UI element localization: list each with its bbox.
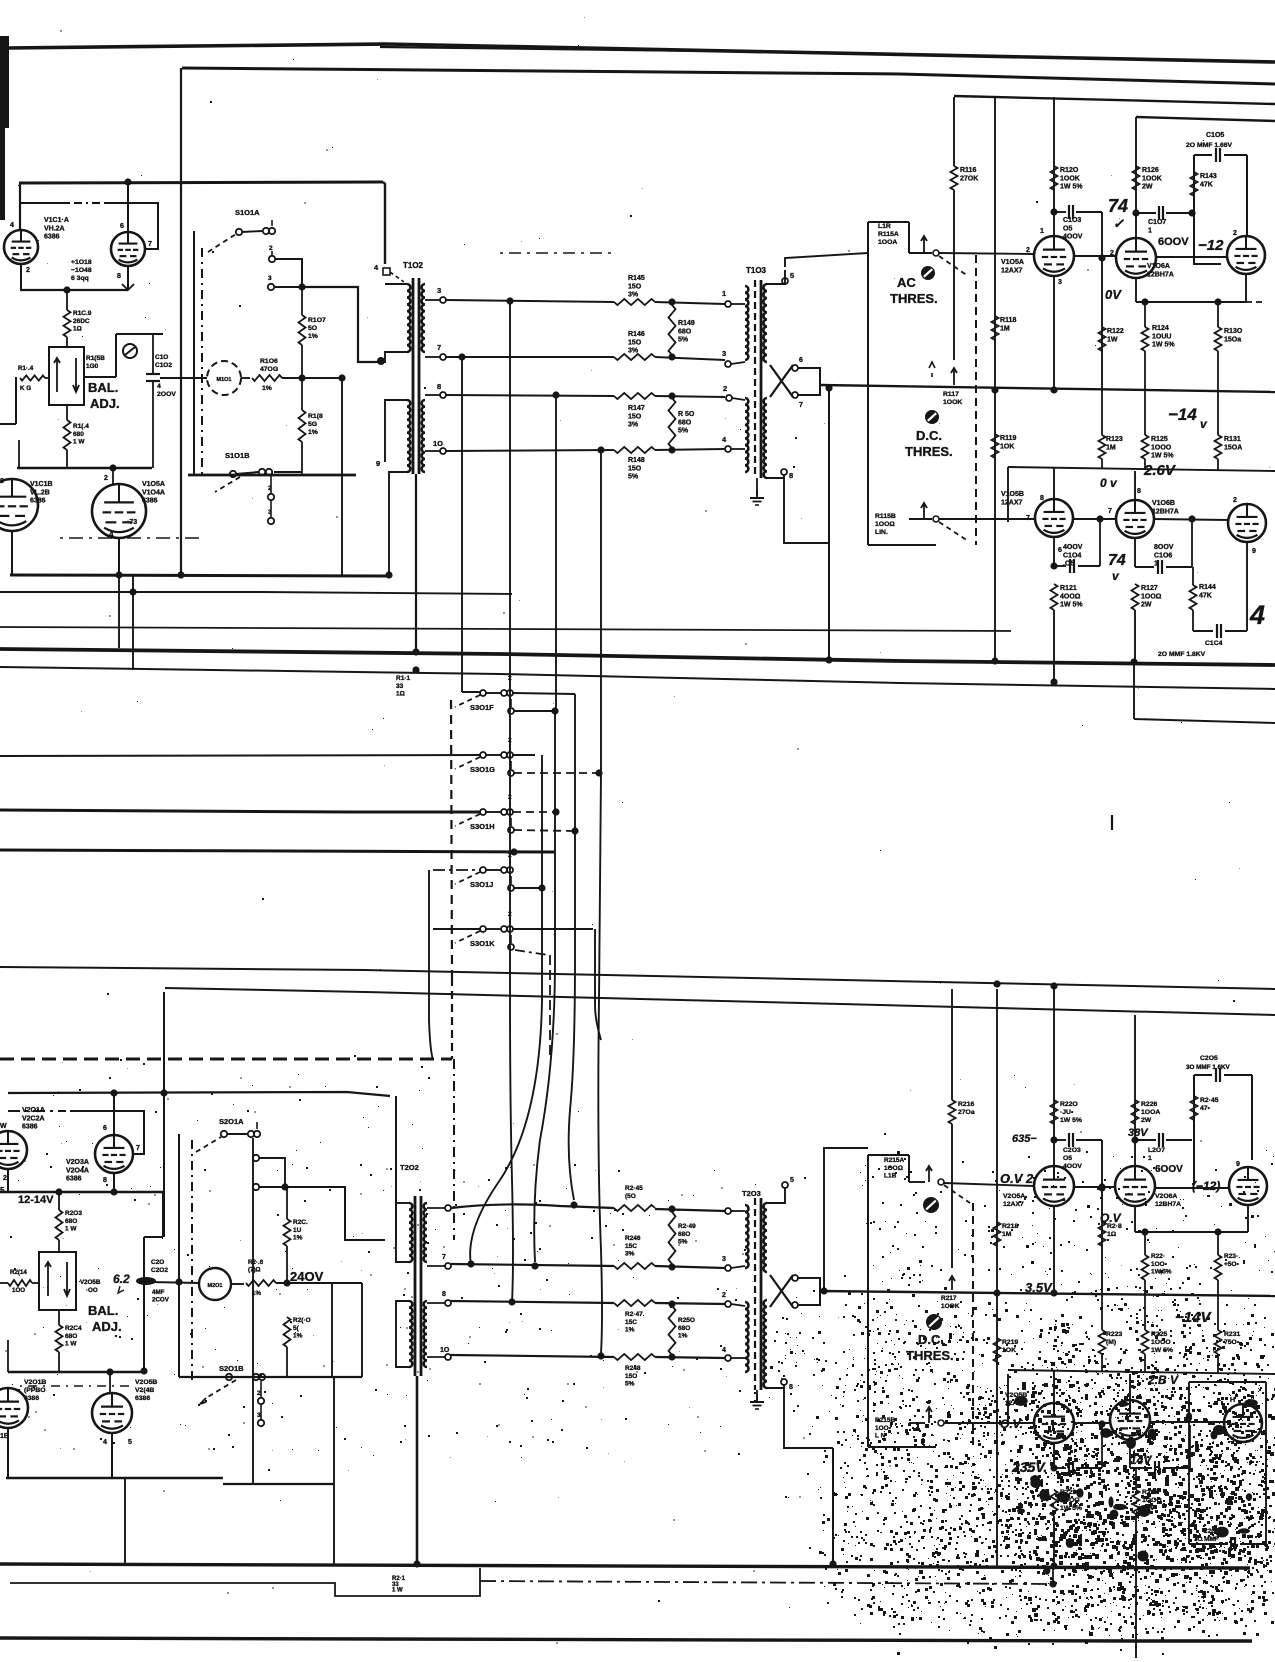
- drop wire w3: [555, 395, 557, 711]
- svg-text:1 W: 1 W: [392, 1588, 403, 1594]
- svg-text:7: 7: [437, 343, 441, 352]
- svg-text:2: 2: [723, 384, 727, 393]
- T202 primary lower: [409, 1301, 412, 1367]
- svg-text:74: 74: [1108, 196, 1128, 216]
- svg-text:1: 1: [1154, 561, 1158, 568]
- svg-text:R22O: R22O: [1060, 1101, 1078, 1108]
- svg-text:1OOO: 1OOO: [1151, 444, 1172, 451]
- T202 left pins: [396, 1202, 409, 1204]
- svg-text:3O MMF 1 6KV: 3O MMF 1 6KV: [1186, 1064, 1231, 1071]
- svg-text:74: 74: [1108, 552, 1126, 569]
- svg-text:R226: R226: [1141, 1101, 1157, 1108]
- svg-text:.O5: .O5: [1063, 561, 1074, 568]
- row2 rail line: [1008, 467, 1275, 471]
- wire under switch box: [274, 471, 302, 473]
- resistor R228: [1142, 1255, 1149, 1280]
- T202 core bottom drop: [416, 1376, 419, 1564]
- svg-text:2: 2: [508, 911, 512, 918]
- capacitor C103: [1054, 211, 1066, 213]
- ch2 wire w2: [451, 1264, 614, 1266]
- svg-text:4: 4: [103, 1439, 107, 1446]
- resistor R130: [1215, 327, 1222, 351]
- V206A cathode row ch2: [1134, 1206, 1136, 1232]
- svg-text:26DC: 26DC: [73, 318, 90, 325]
- wire to V105B grid: [909, 518, 932, 520]
- svg-text:8: 8: [1040, 495, 1044, 502]
- tube V105B 12AX7: [1035, 499, 1073, 537]
- grid bus ch2: [8, 1371, 144, 1373]
- S101A contact 3: [268, 284, 274, 290]
- svg-text:8: 8: [789, 1384, 793, 1391]
- rail x952 ch2: [951, 989, 953, 1100]
- svg-text:2W: 2W: [1141, 1117, 1152, 1124]
- svg-text:68O: 68O: [678, 419, 692, 426]
- svg-text:V1C1B: V1C1B: [30, 481, 53, 488]
- svg-text:15Oa: 15Oa: [1224, 336, 1241, 343]
- capacitor C207: [1135, 1139, 1156, 1141]
- svg-text:3%: 3%: [625, 1251, 635, 1258]
- svg-text:C2O5: C2O5: [1200, 1055, 1218, 1062]
- svg-text:15O: 15O: [628, 339, 642, 346]
- svg-text:V1O6A: V1O6A: [1147, 263, 1170, 270]
- tube V205A ch2: [1034, 1166, 1074, 1206]
- svg-text:D.C.: D.C.: [916, 428, 942, 443]
- svg-text:T1O2: T1O2: [403, 261, 424, 270]
- svg-text:S2O1B: S2O1B: [219, 1364, 244, 1373]
- svg-text:5%: 5%: [678, 428, 689, 435]
- svg-text:7: 7: [442, 1254, 446, 1261]
- svg-text:R119: R119: [1000, 435, 1016, 442]
- svg-text:R1·.4: R1·.4: [18, 365, 34, 372]
- wire x1102 ch2: [1101, 1140, 1103, 1296]
- svg-text:R2·47: R2·47: [625, 1311, 643, 1318]
- resistor R208 ch2: [284, 1317, 291, 1347]
- bus line 3 right: [954, 96, 1275, 104]
- wire to V105A grid: [909, 252, 932, 254]
- svg-text:8OOV: 8OOV: [1154, 544, 1174, 551]
- svg-text:33: 33: [396, 683, 404, 690]
- T202 secondary upper: [424, 1203, 427, 1262]
- resistor R104 680: [66, 405, 68, 420]
- svg-text:R1O7: R1O7: [308, 317, 326, 324]
- mid separator line A: [0, 627, 1011, 631]
- svg-text:68O: 68O: [678, 328, 692, 335]
- svg-text:R2(·O: R2(·O: [293, 1317, 311, 1324]
- svg-text:5: 5: [0, 1186, 5, 1195]
- switch S301H: [480, 809, 486, 815]
- mid separator line B: [0, 667, 1275, 689]
- resistor R144 47K: [1190, 585, 1197, 610]
- svg-text:·JU•: ·JU•: [1060, 1109, 1074, 1116]
- capacitor box C105: [1193, 155, 1195, 265]
- resistor R227 ch2: [1133, 1490, 1140, 1514]
- svg-text:V2O4A: V2O4A: [66, 1167, 89, 1174]
- tube V104A 6386: [92, 484, 146, 538]
- svg-text:8: 8: [789, 471, 793, 480]
- svg-text:R1(5B: R1(5B: [86, 355, 105, 362]
- svg-text:15C: 15C: [625, 1243, 637, 1250]
- svg-text:R2·49: R2·49: [678, 1223, 696, 1230]
- vertical rail x995: [994, 97, 996, 661]
- resistor R122: [1099, 327, 1106, 351]
- dash-dot gang S101: [201, 248, 203, 479]
- wire w1: [446, 300, 614, 302]
- svg-text:15O: 15O: [625, 1373, 637, 1380]
- svg-text:1OOK: 1OOK: [1060, 175, 1080, 182]
- tube V206A ch2: [1115, 1166, 1155, 1206]
- tube V105A cathode drop: [1053, 276, 1055, 392]
- svg-text:D.C.: D.C.: [918, 1332, 944, 1347]
- svg-text:R2(14: R2(14: [10, 1269, 27, 1276]
- resistor R124: [1142, 327, 1149, 351]
- svg-text:M2O1: M2O1: [208, 1283, 223, 1289]
- vertical x1134 to right lower: [1133, 661, 1135, 719]
- svg-text:V2(4B: V2(4B: [135, 1387, 154, 1394]
- svg-text:8: 8: [117, 273, 121, 280]
- drop wire w4: [600, 450, 602, 772]
- wire vertical from bus2: [180, 68, 182, 575]
- svg-text:4: 4: [1249, 600, 1265, 630]
- svg-text:1W 5%: 1W 5%: [1060, 184, 1083, 191]
- svg-text:1%: 1%: [308, 429, 318, 436]
- svg-text:6386: 6386: [142, 498, 158, 505]
- svg-text:8: 8: [0, 478, 4, 485]
- ch2 block top line: [8, 1092, 390, 1096]
- bottom bold wire ch1 left: [10, 575, 389, 576]
- resistor R107 50: [301, 259, 303, 315]
- V105B cathode and C104: [1053, 537, 1055, 567]
- svg-text:R248: R248: [625, 1365, 641, 1372]
- grid bus wire: [17, 467, 152, 469]
- svg-text:1O: 1O: [440, 1347, 450, 1354]
- T203 secondary upper: [764, 1203, 767, 1272]
- resistor R207 ch2: [284, 1219, 291, 1246]
- svg-text:6.2: 6.2: [113, 1272, 130, 1286]
- vertical drop x829: [828, 385, 830, 661]
- resistor R248: [614, 1354, 655, 1360]
- bus line 4 right: [1136, 117, 1275, 121]
- main line ch2 right: [820, 1291, 1275, 1296]
- svg-text:R219: R219: [1002, 1339, 1018, 1346]
- T102 pin 3: [440, 297, 446, 303]
- svg-text:9: 9: [376, 459, 380, 468]
- svg-text:R2·8: R2·8: [1107, 1223, 1122, 1230]
- curvy drop to ch2 w1: [569, 694, 575, 1200]
- svg-text:15C: 15C: [625, 1319, 637, 1326]
- svg-text:6OOV: 6OOV: [1155, 1164, 1183, 1175]
- resistor R127 100: [1132, 584, 1139, 610]
- resistor R219: [994, 1338, 1001, 1362]
- svg-text:C2O3: C2O3: [1063, 1147, 1081, 1154]
- V206B cathode C206 ch2: [1129, 1440, 1131, 1468]
- svg-text:V2O6A: V2O6A: [1155, 1193, 1177, 1200]
- svg-text:1G0: 1G0: [86, 363, 99, 370]
- svg-text:2.B V: 2.B V: [1147, 1373, 1179, 1387]
- left wiper ch2: [8, 1280, 32, 1286]
- screw AC THRES: [921, 266, 935, 280]
- svg-text:2: 2: [269, 245, 273, 252]
- svg-text:S3O1H: S3O1H: [470, 822, 495, 831]
- T202 secondary lower: [424, 1301, 427, 1367]
- svg-text:C2O: C2O: [151, 1259, 164, 1266]
- svg-text:1OOΩ: 1OOΩ: [884, 1165, 903, 1172]
- svg-text:1OO•: 1OO•: [1151, 1261, 1168, 1268]
- X cross ch2: [770, 1275, 793, 1307]
- drop wire w2 to switch F: [461, 357, 463, 692]
- svg-text:1%: 1%: [262, 385, 272, 392]
- svg-text:R216: R216: [958, 1101, 974, 1108]
- wiper resistor R102 left: [20, 375, 45, 380]
- tube V207A ch2: [1229, 1167, 1267, 1205]
- T102 primary left wires: [385, 283, 407, 285]
- svg-text:C1O7: C1O7: [1148, 219, 1166, 226]
- wire x1102 to bottom ch2: [1101, 1425, 1103, 1468]
- ch2 wire w4: [451, 1355, 614, 1357]
- S101A contact 2: [269, 256, 275, 262]
- tube V205B left: [92, 1393, 132, 1433]
- svg-text:L1R: L1R: [878, 223, 891, 230]
- svg-text:+5O•: +5O•: [1224, 1261, 1239, 1268]
- tube V107A: [1227, 236, 1265, 274]
- svg-text:8: 8: [437, 382, 441, 391]
- svg-text:9: 9: [1252, 548, 1256, 555]
- svg-text:6: 6: [120, 223, 124, 230]
- svg-text:S3O1F: S3O1F: [470, 703, 494, 712]
- dash-dot segment: [500, 252, 612, 254]
- tube V201B: [0, 1388, 28, 1428]
- svg-text:R215A: R215A: [884, 1157, 905, 1164]
- svg-text:THRES.: THRES.: [906, 1348, 954, 1363]
- wire bracket over tubes: [20, 202, 70, 204]
- resistor R220: [1051, 1100, 1058, 1124]
- mid separator bold line: [0, 649, 1275, 665]
- svg-text:O5: O5: [1063, 225, 1072, 232]
- svg-text:BAL.: BAL.: [88, 1303, 118, 1318]
- svg-text:2: 2: [257, 1390, 261, 1397]
- svg-text:BAL.: BAL.: [88, 380, 118, 395]
- svg-text:6386: 6386: [135, 1395, 150, 1402]
- svg-text:C1O6: C1O6: [1154, 552, 1172, 559]
- resistor R120 100K: [1051, 166, 1058, 190]
- T102 secondary winding lower: [422, 400, 425, 472]
- svg-text:VL.2B: VL.2B: [30, 489, 50, 496]
- bal adj pot R110: [49, 347, 84, 405]
- cathode bus wire: [20, 289, 128, 291]
- svg-text:12AX7: 12AX7: [1001, 499, 1023, 506]
- svg-text:15O: 15O: [628, 465, 642, 472]
- svg-text:S3O1K: S3O1K: [470, 939, 495, 948]
- V106A cathode to row: [1135, 278, 1137, 302]
- svg-text:V1O5A: V1O5A: [1001, 259, 1024, 266]
- svg-text:15O: 15O: [628, 413, 642, 420]
- resistor R225: [1142, 1330, 1149, 1354]
- photocopy noise: [1113, 1504, 1127, 1510]
- resistor R143 47K: [1191, 172, 1198, 196]
- svg-text:5O: 5O: [308, 325, 317, 332]
- svg-text:(−12): (−12): [1192, 1179, 1220, 1193]
- svg-text:3: 3: [722, 349, 726, 358]
- svg-text:V2O5A: V2O5A: [1003, 1193, 1025, 1200]
- svg-text:R143: R143: [1200, 173, 1217, 180]
- vertical drop from tube V104A: [118, 575, 120, 648]
- svg-text:68O: 68O: [678, 1231, 690, 1238]
- resistor R121 400: [1051, 584, 1058, 610]
- svg-text:1Ω: 1Ω: [1107, 1231, 1117, 1238]
- svg-text:C1O3: C1O3: [1063, 217, 1081, 224]
- rail x1054 ch2: [1053, 987, 1055, 1166]
- wire w2: [446, 356, 614, 358]
- svg-text:R116: R116: [960, 167, 976, 174]
- svg-text:1OUU: 1OUU: [1152, 333, 1171, 340]
- svg-text:R2·.6: R2·.6: [248, 1259, 264, 1266]
- T203 pin5 top: [767, 1188, 785, 1203]
- wire line y593: [0, 592, 512, 594]
- svg-text:4OOV: 4OOV: [1063, 234, 1083, 241]
- svg-text:R127: R127: [1141, 585, 1158, 592]
- T102 core bottom drop: [415, 474, 417, 652]
- tube V207B ch2: [1224, 1404, 1262, 1442]
- svg-text:2: 2: [104, 475, 108, 482]
- svg-text:V2O5B: V2O5B: [80, 1279, 101, 1286]
- svg-text:1M: 1M: [1002, 1231, 1012, 1238]
- svg-text:2O MMF 1.66V: 2O MMF 1.66V: [1186, 142, 1233, 149]
- svg-text:15O: 15O: [628, 283, 642, 290]
- box right edge ch2: [331, 1283, 333, 1377]
- svg-text:1: 1: [722, 289, 726, 298]
- threshold box outline: [867, 222, 869, 545]
- drop wire w1 contact rail: [509, 301, 511, 929]
- curvy drop to ch2 w4: [598, 773, 602, 1353]
- T203 core: [754, 1198, 756, 1390]
- bottom bus bold: [0, 1564, 1250, 1568]
- svg-text:·73: ·73: [127, 519, 137, 526]
- resistor R125: [1142, 435, 1149, 459]
- left edge scan bar: [0, 36, 9, 128]
- wire w3: [446, 395, 614, 396]
- resistor R149 680 vertical: [669, 305, 676, 355]
- ch2 grid wire from above: [163, 992, 165, 1237]
- switch S301K: [480, 926, 486, 932]
- V205B cathode C204 ch2: [1053, 1443, 1055, 1468]
- T102 pin 8: [440, 392, 446, 398]
- svg-text:2W: 2W: [1141, 602, 1152, 609]
- svg-text:1Ω: 1Ω: [73, 326, 82, 333]
- svg-text:2O MMF 1.8KV: 2O MMF 1.8KV: [1158, 651, 1206, 658]
- pot R117 arrow: [953, 368, 955, 385]
- svg-text:R1(.4: R1(.4: [73, 423, 89, 430]
- V206A plate rail ch2: [1134, 1015, 1136, 1166]
- svg-text:1 W: 1 W: [65, 1341, 77, 1348]
- T103 primary winding upper: [745, 286, 748, 360]
- svg-text:2COV: 2COV: [152, 1297, 170, 1304]
- svg-text:1OOK: 1OOK: [1142, 175, 1162, 182]
- svg-text:R23·: R23·: [1224, 1253, 1238, 1260]
- curvy drop to ch2 w2: [534, 711, 555, 1262]
- svg-text:0V: 0V: [1105, 287, 1122, 302]
- T202 right pins: [445, 1205, 451, 1211]
- svg-text:R126: R126: [1142, 167, 1159, 174]
- T103 secondary upper: [763, 284, 767, 362]
- svg-text:L1B: L1B: [884, 1173, 897, 1180]
- curvy drop to ch2 pin: [470, 755, 542, 1265]
- T203 primary lower: [745, 1302, 749, 1372]
- svg-text:V2O5B: V2O5B: [135, 1379, 157, 1386]
- top bus line 2: [182, 68, 1275, 84]
- svg-text:C1O: C1O: [155, 354, 168, 361]
- ch2 lower cathode bus: [6, 1477, 223, 1480]
- svg-text:24OV: 24OV: [290, 1269, 324, 1284]
- svg-text:2: 2: [508, 794, 512, 801]
- box right edge to T102: [383, 182, 385, 264]
- svg-text:1: 1: [1040, 228, 1044, 235]
- plate bracket ch2: [70, 1111, 144, 1154]
- svg-text:−14: −14: [1168, 405, 1197, 424]
- vertical wire x342: [341, 378, 343, 576]
- svg-text:6: 6: [1058, 547, 1062, 554]
- pot R115A arrow: [923, 236, 925, 253]
- svg-text:R121: R121: [1060, 585, 1077, 592]
- svg-text:S3O1J: S3O1J: [470, 880, 493, 889]
- svg-text:1%: 1%: [293, 1235, 303, 1242]
- svg-text:8: 8: [1137, 488, 1141, 495]
- svg-text:2OOV: 2OOV: [157, 391, 176, 398]
- svg-text:5: 5: [790, 271, 794, 280]
- resistor R150 680 vertical: [669, 398, 676, 448]
- svg-text:S1O1B: S1O1B: [225, 451, 250, 460]
- svg-text:9: 9: [1236, 1161, 1240, 1168]
- svg-text:1: 1: [1148, 227, 1152, 234]
- resistor R131: [1215, 435, 1222, 459]
- svg-text:ADJ.: ADJ.: [90, 396, 120, 411]
- ch2 wire verticals to bottom: [252, 1138, 254, 1484]
- svg-text:3%: 3%: [628, 348, 639, 355]
- wire w4: [446, 450, 614, 451]
- svg-text:1%: 1%: [308, 333, 318, 340]
- svg-text:12BH7A: 12BH7A: [1147, 271, 1174, 278]
- bottom label box wire: [10, 1568, 480, 1596]
- V106B cathode and C106: [1134, 538, 1136, 567]
- svg-text:47•: 47•: [1200, 1105, 1211, 1112]
- svg-text:5%: 5%: [625, 1381, 635, 1388]
- svg-text:2: 2: [722, 1292, 726, 1299]
- T103 primary winding lower: [745, 398, 748, 472]
- ch2 top line A: [0, 967, 1275, 989]
- svg-text:6: 6: [799, 357, 803, 364]
- svg-text:(M): (M): [1106, 1339, 1116, 1346]
- svg-text:4: 4: [157, 383, 161, 390]
- svg-text:R124: R124: [1152, 325, 1169, 332]
- svg-text:S1O1A: S1O1A: [235, 208, 260, 217]
- svg-text:47OG: 47OG: [260, 366, 278, 373]
- resistor R148 150: [614, 447, 655, 453]
- svg-text:1W 5%: 1W 5%: [1060, 602, 1083, 609]
- wire from left to box ch2: [824, 1148, 868, 1291]
- svg-text:1OOA: 1OOA: [878, 239, 897, 246]
- wire x429 drop: [428, 870, 430, 1020]
- svg-text:R217: R217: [941, 1295, 957, 1302]
- resistor R231: [1215, 1330, 1222, 1354]
- svg-text:1 W: 1 W: [65, 1226, 77, 1233]
- svg-text:1OOA: 1OOA: [1141, 1109, 1160, 1116]
- svg-text:C1O5: C1O5: [1206, 132, 1224, 139]
- svg-text:(PPBO: (PPBO: [24, 1387, 46, 1394]
- svg-text:R2O3: R2O3: [65, 1210, 82, 1217]
- tube V107B: [1228, 504, 1266, 542]
- switch box S101 outline: [193, 231, 195, 474]
- resistor R247: [614, 1300, 655, 1306]
- tube V106A 12BH7A: [1116, 238, 1156, 278]
- wire to T102 pin7: [302, 287, 378, 362]
